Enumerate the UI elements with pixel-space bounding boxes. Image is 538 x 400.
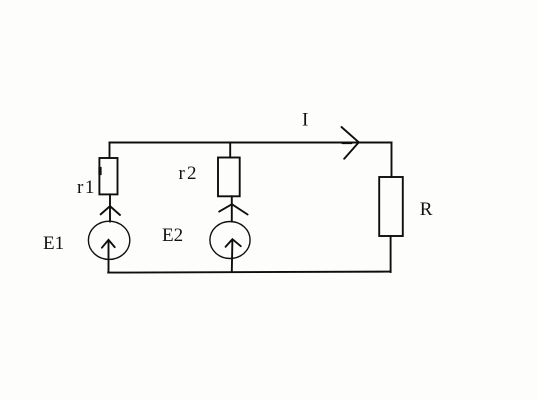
- svg-text:r1: r1: [77, 177, 96, 198]
- resistor r2: [218, 158, 240, 197]
- wire stub top to r1: [109, 143, 111, 159]
- svg-text:E1: E1: [43, 233, 64, 254]
- source E2 circle: [210, 222, 250, 259]
- wire bottom horizontal node: [108, 272, 390, 273]
- resistor R: [379, 177, 403, 236]
- wire top horizontal node: [110, 142, 392, 144]
- EMF arrow chevron above E2: [219, 204, 247, 214]
- wire stub top to r2: [229, 143, 231, 158]
- EMF arrow chevron above E1: [101, 206, 120, 215]
- svg-text:E2: E2: [162, 225, 183, 246]
- wire right vertical top: [391, 143, 393, 178]
- current arrow I: [342, 127, 359, 159]
- E1 internal arrow: [102, 240, 115, 273]
- paint smudge on r1 left edge: [98, 169, 101, 174]
- wire r1 to E1: [109, 194, 111, 221]
- wire r2 to E2: [231, 196, 233, 221]
- resistor r1: [99, 158, 117, 194]
- E2 internal arrow: [226, 239, 241, 272]
- svg-text:r2: r2: [179, 163, 199, 184]
- wire right vertical bottom: [390, 236, 392, 272]
- svg-text:I: I: [302, 110, 308, 131]
- source E1 circle: [88, 221, 129, 259]
- svg-text:R: R: [420, 199, 433, 220]
